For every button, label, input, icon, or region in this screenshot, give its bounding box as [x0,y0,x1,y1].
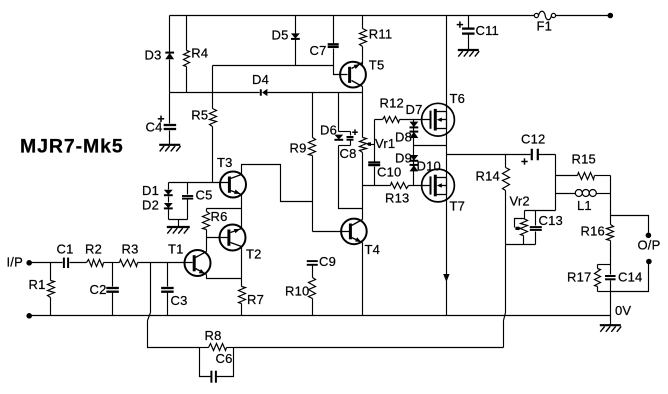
svg-text:R17: R17 [567,270,591,285]
resistor R3 [120,260,138,267]
polarity + of C8 [352,131,358,133]
svg-text:C7: C7 [310,43,327,58]
capacitor C13 wires [535,211,537,226]
svg-text:D7: D7 [406,102,423,117]
resistor R6 lead [206,209,208,212]
capacitor C5 [182,195,193,197]
svg-text:T6: T6 [450,91,466,106]
svg-text:R1: R1 [29,277,46,292]
svg-text:C10: C10 [377,165,401,180]
svg-text:I/P: I/P [7,254,24,269]
svg-text:0V: 0V [615,303,631,318]
capacitor C3 wires [167,263,169,287]
wire bar to ground [178,220,180,227]
svg-text:L1: L1 [577,198,592,213]
node O/P lower terminal [646,259,652,265]
wire R8 line left [200,347,209,349]
wire Vr1 bottom line to R13 [363,185,391,187]
resistor R1 [48,281,55,298]
wire left rail from top to D3 [169,16,171,53]
wire diode midpoint to source node [414,145,447,147]
capacitor C3 [161,287,174,289]
wire T7 source to 0V rail [446,195,448,316]
resistor R5 leads [212,93,214,109]
capacitor C14 [605,275,616,277]
wire R5 to T3 base line [212,127,214,183]
ground at 0V end [610,316,612,325]
capacitor C5 wires [187,183,189,195]
capacitor C2 [106,287,119,289]
wire R2 to R3 [104,262,120,264]
transistor T3 [220,172,246,198]
svg-text:C5: C5 [196,188,213,203]
wire R16 to R17 bar [610,241,612,265]
svg-text:C12: C12 [521,132,545,147]
svg-text:R4: R4 [191,46,208,61]
wire gate diode chain [413,120,415,186]
svg-text:C3: C3 [171,293,188,308]
wire D1 to D2 [168,197,170,203]
wire D2 to bottom bar [168,210,170,220]
wire feedback hop over 0V rail [148,313,151,321]
diode D1 [164,190,173,195]
wire input line [30,262,63,264]
transistor T2 [220,225,246,251]
wire T1 collector up [206,238,208,252]
capacitor C6 loop [200,348,211,377]
capacitor C12 [531,149,533,161]
diode D9 [410,155,419,161]
diode D10 [410,164,419,166]
resistor R4 [184,51,190,67]
resistor R11 [360,29,367,47]
capacitor C14 wires [610,265,612,275]
diode D7 [410,122,419,128]
svg-text:R2: R2 [85,242,102,257]
wire R3 to T1 base [138,262,193,264]
wire R1 to 0V rail [50,298,52,316]
wire T4 collector up to bias node [362,186,364,220]
mosfet T7 [422,169,455,202]
svg-text:F1: F1 [537,19,553,34]
svg-text:R9: R9 [290,141,307,156]
wire top rail to C7 [333,16,335,44]
wire T6 source to T7 drain [446,129,448,178]
wire D4 rail right segment [268,92,363,94]
wire D1 branch top [168,183,170,190]
wire R14 to Vr2 bottom bar [505,191,507,245]
transistor T5 [340,62,366,88]
wire R15/L1 right vertical [610,176,612,225]
fuse F1 [534,13,538,17]
resistor R17 [595,269,601,287]
capacitor C13 [530,226,542,228]
polarity + of C11 [457,24,463,26]
wire output tap [447,154,531,156]
wire T5 collector to Vr1 [362,87,364,138]
svg-text:C1: C1 [57,242,74,257]
svg-text:D3: D3 [145,48,162,63]
node O/P upper terminal [646,233,652,239]
wire R12 to T6 gate [400,119,430,121]
wire riser from D4 rail up [212,66,214,93]
wire O/P lower to 0V node [611,264,649,292]
svg-text:C8: C8 [340,146,357,161]
svg-text:T4: T4 [365,242,381,257]
wire T2 collector down [241,247,243,279]
wire T4 base line [313,231,351,233]
capacitor C10 [368,161,380,163]
wire +V top rail [170,15,535,17]
resistor R1 leads [50,263,52,281]
wire R17/C14 bottom bar [598,291,611,293]
wire +V rail to T6 drain [446,16,448,112]
wire R13 to T7 gate [409,185,430,187]
resistor R15 leads [556,175,578,177]
svg-text:R13: R13 [385,191,409,206]
svg-text:R12: R12 [380,96,404,111]
svg-text:D8: D8 [395,130,412,145]
wire Vr2/C13 top bar [525,210,556,212]
wire D4 rail left segment [170,92,260,94]
resistor R8 [209,344,227,351]
svg-text:T3: T3 [217,155,233,170]
preset Vr2 [524,211,526,219]
wire R17/C14 top bar [598,264,611,266]
wire output tap to C12 right [539,154,556,156]
wire R6 top line [207,208,242,210]
wire bottom bar to 0V rail [610,292,612,316]
wire D4 rail to D6/C8 top [338,93,340,132]
diode D2 [164,203,173,208]
current direction arrow on T7 source wire [443,274,449,282]
wire T2 emitter up to T3 [241,195,243,229]
wire C10 to R13 node [374,167,376,186]
wire R9 to T4 base node [312,156,314,232]
transistor T4 [341,219,367,245]
svg-text:R8: R8 [205,328,222,343]
svg-text:C14: C14 [618,270,642,285]
wire Vr2/C13 bottom bar [506,244,536,246]
capacitor C8 [350,132,352,136]
wire R10 to 0V rail [312,299,314,316]
svg-text:T2: T2 [246,247,262,262]
wire T3 collector jog to R9 node [242,165,313,202]
wire feedback tap from input node [150,263,152,313]
wire +V rail to C11 [468,16,470,28]
wire 0V bottom rail [30,315,611,317]
resistor R5 [210,109,217,127]
wire D5 to bias line [295,40,297,66]
svg-text:R11: R11 [369,27,392,42]
svg-text:R14: R14 [476,169,500,184]
svg-text:R7: R7 [247,292,264,307]
wire top rail after fuse F1 [556,15,611,17]
wire top rail to R4 [186,16,188,51]
wire R4 to D4 rail [186,67,188,93]
capacitor C6 [210,371,212,383]
transistor T1 [185,250,211,276]
wire T3 base line [169,182,230,184]
diode D4 [260,89,262,95]
wire C11 to ground [468,35,470,50]
node input ground terminal [26,313,32,319]
polarity + of C4 [158,118,164,120]
wire feedback hop right [503,321,505,348]
svg-text:MJR7-Mk5: MJR7-Mk5 [20,136,124,158]
wire R6 bottom to T2 base node [206,230,208,238]
capacitor C4 [164,124,177,126]
svg-text:T1: T1 [168,242,184,257]
wire C12 node down [555,155,557,211]
resistor R7 [239,287,246,304]
capacitor C1 [63,258,65,269]
inductor L1 [575,190,582,197]
svg-text:D6: D6 [320,123,337,138]
mosfet T6 [422,103,455,136]
resistor R6 [203,212,210,230]
resistor R13 [391,183,409,189]
wire D4 rail to R9 [312,93,314,138]
diode D8 [410,131,419,133]
svg-text:C2: C2 [90,282,107,297]
svg-text:D4: D4 [252,72,269,87]
ground under C5 [167,226,190,228]
resistor R14 [503,168,510,191]
wire C7 to T5 base [334,49,348,75]
node +V supply terminal [608,13,614,19]
svg-text:T7: T7 [450,199,466,214]
diode D3 [165,52,174,54]
wire T2 base line [207,237,229,239]
svg-text:C13: C13 [539,213,563,228]
resistor R9 [309,138,316,156]
wire C1 to R2 [70,262,87,264]
wire feedback up to R14 [505,245,507,313]
node input terminal [26,260,32,266]
preset Vr1 [360,138,367,153]
wire R12 left down to C10 [374,120,376,162]
svg-text:D5: D5 [272,28,289,43]
resistor R12 [375,119,383,121]
wire feedback line to output side [234,347,504,349]
wire C4 to ground [169,131,171,145]
wire Vr2 bottom [523,236,525,245]
svg-text:C9: C9 [319,254,336,269]
wire D6/C8 to T4 collector node [339,146,363,209]
wire R7 to 0V rail [241,304,243,316]
svg-text:R3: R3 [122,242,139,257]
wire feedback down to R8 line [148,321,200,348]
resistor R10 [309,278,316,299]
inductor L1 leads [556,193,576,195]
resistor R2 [87,260,104,267]
svg-text:Vr2: Vr2 [510,194,530,209]
svg-text:R6: R6 [211,209,228,224]
svg-text:C11: C11 [476,23,499,38]
wire D6/C8 top bar [339,131,351,133]
resistor R17 leads [597,265,599,269]
polarity + of C12 [521,161,527,163]
wire T4 emitter to 0V rail [362,243,364,316]
wire T1 emitter down to R7 node [207,275,242,279]
svg-text:T5: T5 [369,58,385,73]
svg-text:C6: C6 [216,351,233,366]
capacitor C11 [462,27,475,29]
svg-text:R5: R5 [191,108,208,123]
capacitor C2 wires [112,263,114,287]
wire D3 to D4-rail to C4 [169,60,171,124]
svg-text:C4: C4 [146,120,163,135]
wire Vr1 to bias node [362,153,364,186]
resistor R14 lead [505,155,507,168]
capacitor C7 [328,43,339,45]
capacitor C9 [307,260,318,262]
resistor R16 [607,225,614,241]
svg-text:D9: D9 [395,151,412,166]
diode D6 [334,135,343,140]
wire top rail to R11 [362,16,364,29]
wire bias line to C7 node [213,65,334,67]
wire D6/C8 bottom bar [339,145,351,147]
resistor R15 [578,173,595,180]
svg-text:O/P: O/P [638,238,661,253]
wire O/P branch [611,216,649,233]
wire D1D2/C5 bottom bar [169,219,188,221]
wire top rail to D5 [295,16,297,34]
diode D5 [291,33,300,38]
svg-text:R10: R10 [285,284,309,299]
svg-text:R16: R16 [581,224,605,239]
svg-text:R15: R15 [572,152,596,167]
wire R11 to T5 emitter [362,47,364,65]
wire C9 to R10 [312,266,314,278]
svg-text:D1: D1 [142,183,159,198]
svg-text:Vr1: Vr1 [375,136,395,151]
ground under C11 [458,49,479,51]
svg-text:D2: D2 [142,198,159,213]
wire R8 line right [227,347,234,349]
ground under C4 [159,144,180,146]
resistor R7 lead [241,279,243,287]
